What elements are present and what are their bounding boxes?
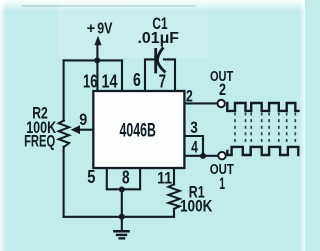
svg-text:14: 14 xyxy=(102,71,118,91)
svg-text:1: 1 xyxy=(219,174,225,193)
svg-text:11: 11 xyxy=(157,169,172,188)
svg-text:FREQ: FREQ xyxy=(24,133,55,151)
svg-text:5: 5 xyxy=(87,167,95,187)
svg-text:7: 7 xyxy=(159,71,166,91)
svg-text:8: 8 xyxy=(122,167,130,187)
svg-text:.01μF: .01μF xyxy=(138,30,180,47)
svg-text:2: 2 xyxy=(186,87,193,106)
svg-text:4046B: 4046B xyxy=(120,121,156,142)
svg-text:6: 6 xyxy=(133,70,141,90)
svg-text:+: + xyxy=(87,20,96,37)
svg-text:16: 16 xyxy=(83,71,98,91)
svg-text:9V: 9V xyxy=(97,20,112,37)
svg-text:4: 4 xyxy=(191,137,198,156)
svg-text:9: 9 xyxy=(79,110,87,129)
svg-text:2: 2 xyxy=(219,80,226,99)
svg-text:3: 3 xyxy=(190,118,198,137)
svg-text:100K: 100K xyxy=(180,197,212,215)
